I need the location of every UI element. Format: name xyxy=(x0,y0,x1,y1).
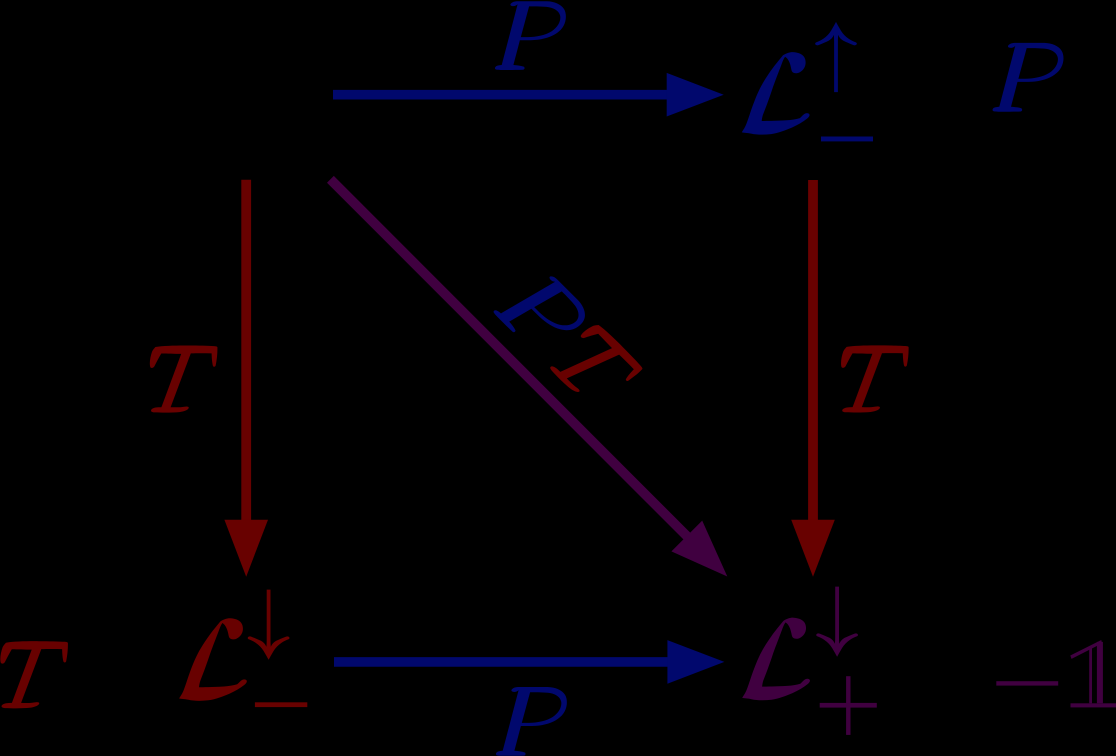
label PT (diagonal arrow), rotated 45deg xyxy=(493,263,645,415)
arrow T right: L_- up -> L_+ down xyxy=(808,180,818,522)
node L^arrow-down_minus xyxy=(179,590,307,708)
label P (right of L up minus) xyxy=(993,43,1064,112)
arrow P bottom: L_- down -> L_+ down xyxy=(334,657,669,667)
arrow T left: identity -> L_- down xyxy=(241,180,251,522)
label P (top arrow) xyxy=(495,1,566,70)
arrow P top: identity -> L_- up xyxy=(333,90,669,100)
label P (bottom arrow) xyxy=(496,687,567,756)
label minus-one (det = -1) xyxy=(996,640,1116,707)
label T (bottom left corner) xyxy=(0,641,68,708)
node L^arrow-down_plus xyxy=(742,587,877,735)
label T (left arrow) xyxy=(150,345,218,412)
arrow PT diagonal: identity -> L_+ down xyxy=(327,176,692,541)
label T (right arrow) xyxy=(841,345,909,412)
node L^arrow-up_minus (orthochronous proper-reversing class) xyxy=(742,22,873,141)
